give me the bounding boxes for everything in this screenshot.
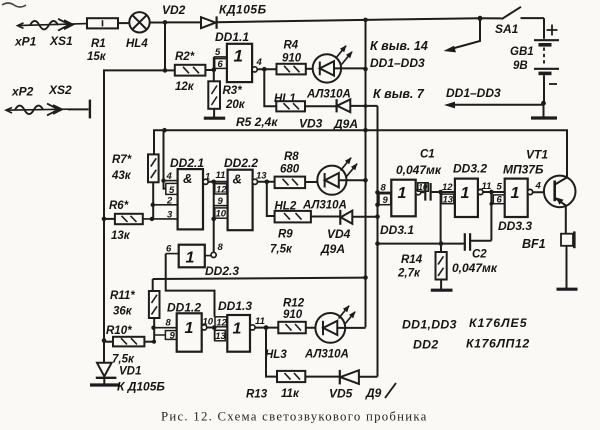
node xyxy=(212,68,217,73)
wire pins 4-5 xyxy=(164,130,166,188)
wire xyxy=(566,246,568,289)
svg-text:АЛ310А: АЛ310А xyxy=(304,349,349,361)
svg-text:HL3: HL3 xyxy=(265,349,287,361)
wire xyxy=(257,68,276,70)
svg-text:МП37Б: МП37Б xyxy=(503,163,544,177)
scan smudge top-left xyxy=(2,3,26,7)
node xyxy=(478,16,483,21)
svg-text:К176ЛП12: К176ЛП12 xyxy=(466,337,530,351)
svg-text:SA1: SA1 xyxy=(495,22,519,36)
svg-text:10: 10 xyxy=(216,209,227,220)
node xyxy=(102,217,107,222)
svg-text:HL4: HL4 xyxy=(126,38,148,50)
svg-text:1: 1 xyxy=(511,185,520,202)
pin 13 box DD3.2 xyxy=(442,194,454,205)
resistor R7 xyxy=(148,154,159,219)
svg-text:С1: С1 xyxy=(420,149,435,161)
arrowhead xyxy=(444,102,455,109)
node xyxy=(375,203,380,208)
svg-text:13: 13 xyxy=(215,331,226,342)
wire xyxy=(144,341,154,343)
svg-text:R4: R4 xyxy=(284,40,299,52)
wire +V line mid xyxy=(154,130,567,177)
gate DD3.2 xyxy=(455,179,483,217)
wire R13 branch xyxy=(266,328,277,377)
svg-text:9: 9 xyxy=(218,196,224,207)
svg-text:1: 1 xyxy=(186,250,195,267)
svg-text:VD3: VD3 xyxy=(299,117,323,131)
svg-text:DD1–DD3: DD1–DD3 xyxy=(446,86,501,100)
wire xyxy=(305,376,340,378)
svg-text:R14: R14 xyxy=(401,254,423,266)
wire +9V rail xyxy=(217,18,502,22)
ground BF1 xyxy=(557,288,578,291)
wire xyxy=(305,105,337,107)
wire xyxy=(305,181,325,183)
resistor R14 xyxy=(436,244,447,290)
pin 9 box DD1.2 xyxy=(154,331,180,342)
node A xyxy=(163,20,168,25)
svg-text:&: & xyxy=(183,171,192,186)
node xyxy=(265,180,270,185)
node R10 bus xyxy=(102,338,107,343)
svg-text:6: 6 xyxy=(166,244,172,255)
svg-text:DD1.3: DD1.3 xyxy=(218,299,252,313)
pin 6 box DD3.3 xyxy=(493,195,504,206)
svg-text:R12: R12 xyxy=(283,298,305,310)
svg-text:8: 8 xyxy=(218,242,224,253)
pin 13 box DD1.3 xyxy=(215,328,227,343)
svg-text:КД105Б: КД105Б xyxy=(219,3,267,17)
node xyxy=(264,325,269,330)
resistor R9 xyxy=(275,211,311,223)
wire DD2.2 input tie xyxy=(213,182,215,252)
svg-text:VD5: VD5 xyxy=(329,387,353,401)
svg-text:Д9А: Д9А xyxy=(333,117,358,131)
node xyxy=(163,68,168,73)
svg-text:DD3.1: DD3.1 xyxy=(380,223,414,237)
diode VD5 xyxy=(340,370,378,385)
resistor R10 xyxy=(113,337,144,347)
wire xyxy=(104,341,113,343)
wire emitter xyxy=(565,205,567,233)
svg-text:R6*: R6* xyxy=(109,200,129,212)
resistor R13 xyxy=(277,371,305,382)
switch SA1 xyxy=(502,7,545,19)
svg-text:10: 10 xyxy=(203,317,214,328)
svg-text:АЛ310А: АЛ310А xyxy=(302,200,347,212)
svg-text:DD2.3: DD2.3 xyxy=(205,264,239,278)
svg-text:DD1.2: DD1.2 xyxy=(167,301,201,315)
svg-text:BF1: BF1 xyxy=(522,237,546,251)
svg-text:680: 680 xyxy=(280,164,300,176)
svg-text:VT1: VT1 xyxy=(526,148,548,162)
svg-text:5: 5 xyxy=(215,47,221,58)
node xyxy=(489,190,494,195)
node xyxy=(212,325,217,330)
svg-text:XS2: XS2 xyxy=(48,83,72,97)
node xyxy=(211,180,216,185)
diode VD3 xyxy=(337,99,378,112)
pin 6 box xyxy=(215,59,227,70)
LED HL2 xyxy=(317,158,365,195)
svg-text:12: 12 xyxy=(216,318,227,329)
svg-text:9В: 9В xyxy=(513,60,528,72)
wire node A down xyxy=(164,22,166,70)
svg-text:1: 1 xyxy=(234,47,243,66)
svg-text:9: 9 xyxy=(170,331,176,342)
ground VD1 xyxy=(90,383,120,386)
node xyxy=(375,241,380,246)
wire xyxy=(205,69,213,71)
svg-text:11: 11 xyxy=(216,170,226,181)
svg-text:R3*: R3* xyxy=(223,85,243,97)
svg-text:АЛ310А: АЛ310А xyxy=(306,89,351,101)
svg-text:1: 1 xyxy=(398,185,407,202)
pin 10 box xyxy=(215,208,229,220)
node xyxy=(262,67,267,72)
gate DD3.3 xyxy=(505,179,533,217)
gate DD1.2 xyxy=(177,313,207,351)
pin 8 DD1.2 xyxy=(154,327,177,329)
buzzer BF1 xyxy=(561,231,574,248)
svg-text:3: 3 xyxy=(167,210,173,221)
svg-text:8: 8 xyxy=(166,318,172,329)
svg-text:GB1: GB1 xyxy=(510,46,534,58)
node xyxy=(363,128,368,133)
pin 3 xyxy=(143,218,178,220)
svg-text:10: 10 xyxy=(418,183,427,192)
svg-text:DD1.1: DD1.1 xyxy=(215,30,249,44)
svg-text:13: 13 xyxy=(443,195,454,206)
gate DD2.3 xyxy=(179,245,217,268)
wire pins 5-6 tie xyxy=(213,57,215,81)
svg-text:9: 9 xyxy=(383,195,389,206)
svg-text:910: 910 xyxy=(282,53,302,65)
node xyxy=(161,178,165,182)
pin 9 xyxy=(214,205,228,207)
svg-text:К176ЛЕ5: К176ЛЕ5 xyxy=(469,316,528,330)
svg-text:12: 12 xyxy=(442,182,453,193)
node xyxy=(364,104,368,108)
wire to pin 7 xyxy=(451,104,544,106)
svg-text:&: & xyxy=(233,172,242,187)
pin 6 xyxy=(166,253,179,255)
LED HL3 xyxy=(315,306,365,343)
wire bus B xyxy=(377,106,379,377)
svg-text:R5 2,4к: R5 2,4к xyxy=(236,115,278,129)
svg-text:13к: 13к xyxy=(111,230,131,242)
svg-text:XS1: XS1 xyxy=(49,34,73,48)
probe XP1/XS1 xyxy=(18,19,88,31)
svg-text:2: 2 xyxy=(166,196,173,207)
svg-text:11: 11 xyxy=(255,316,265,327)
resistor R2 xyxy=(175,65,206,76)
svg-text:43к: 43к xyxy=(111,170,132,182)
wire xyxy=(150,22,165,24)
diode VD1 xyxy=(96,341,117,385)
wire xyxy=(104,218,115,220)
wire xyxy=(165,69,175,71)
wire C2 tie xyxy=(490,192,492,241)
wire xyxy=(255,327,278,329)
svg-text:К выв. 14: К выв. 14 xyxy=(370,39,428,53)
wire feedback xyxy=(166,254,215,317)
svg-text:R1: R1 xyxy=(91,38,106,50)
svg-text:хР2: хР2 xyxy=(11,85,34,99)
svg-text:910: 910 xyxy=(283,309,303,321)
wire xyxy=(118,22,129,24)
svg-text:R9: R9 xyxy=(278,229,293,241)
svg-text:DD2.2: DD2.2 xyxy=(224,156,258,170)
svg-text:4: 4 xyxy=(256,57,263,68)
svg-text:15к: 15к xyxy=(87,51,107,63)
pin 2 xyxy=(153,204,178,206)
ground R14 xyxy=(431,289,453,292)
svg-text:R11*: R11* xyxy=(110,290,135,302)
gate DD1.1 xyxy=(227,44,257,82)
wire down to R5 xyxy=(264,69,276,106)
resistor R11 xyxy=(149,291,160,342)
svg-text:DD1,DD3: DD1,DD3 xyxy=(402,318,457,332)
gate DD1.3 xyxy=(227,315,255,352)
svg-text:DD1–DD3: DD1–DD3 xyxy=(370,56,425,70)
wire pins 12-13 tie xyxy=(440,192,442,244)
svg-text:DD3.2: DD3.2 xyxy=(453,162,487,176)
capacitor C2 xyxy=(465,233,492,251)
gate DD2.1 xyxy=(178,169,209,229)
svg-text:R2*: R2* xyxy=(175,51,195,63)
svg-text:12: 12 xyxy=(216,185,227,196)
node xyxy=(363,67,368,72)
diode VD4 xyxy=(340,210,377,225)
wire xyxy=(152,279,154,291)
wire bias line xyxy=(153,278,366,279)
wire xyxy=(306,68,320,70)
svg-text:6: 6 xyxy=(497,195,503,206)
svg-text:VD4: VD4 xyxy=(327,227,351,241)
wire xyxy=(311,216,340,218)
svg-text:R7*: R7* xyxy=(112,154,132,166)
node xyxy=(439,241,444,246)
wire xyxy=(165,21,201,23)
pin 10 box label xyxy=(418,183,428,192)
svg-text:5: 5 xyxy=(169,185,175,196)
transistor VT1 xyxy=(544,176,576,208)
svg-text:4: 4 xyxy=(166,171,173,182)
node xyxy=(152,340,156,344)
wire xyxy=(258,181,275,183)
wire down to R9 xyxy=(267,182,275,216)
svg-text:11к: 11к xyxy=(281,388,300,400)
node xyxy=(490,202,494,206)
pin 4 xyxy=(164,180,178,182)
svg-text:Рис. 12. Схема светозвукового: Рис. 12. Схема светозвукового пробника xyxy=(161,410,428,424)
svg-text:1: 1 xyxy=(461,185,470,202)
pin 5 xyxy=(214,56,227,58)
resistor R5 xyxy=(276,101,305,111)
node xyxy=(363,18,368,23)
svg-text:DD2: DD2 xyxy=(413,338,439,352)
svg-text:R10*: R10* xyxy=(106,325,132,337)
svg-text:4: 4 xyxy=(535,181,542,192)
wire xyxy=(421,191,425,193)
svg-text:DD3.3: DD3.3 xyxy=(498,219,532,233)
wire xyxy=(483,191,505,193)
capacitor C1 xyxy=(425,183,455,201)
svg-text:12к: 12к xyxy=(175,81,195,93)
node xyxy=(375,214,380,219)
node xyxy=(363,178,368,183)
node xyxy=(150,217,154,221)
svg-text:DD2.1: DD2.1 xyxy=(170,156,204,170)
node xyxy=(162,128,167,133)
svg-text:К выв. 7: К выв. 7 xyxy=(373,87,425,101)
svg-text:2,7к: 2,7к xyxy=(397,268,421,280)
node xyxy=(438,190,443,195)
resistor R1 xyxy=(87,18,118,28)
svg-text:1: 1 xyxy=(185,320,194,337)
svg-text:R8: R8 xyxy=(284,151,299,163)
node battery minus xyxy=(541,101,546,106)
svg-text:Д9: Д9 xyxy=(365,386,382,400)
svg-text:20к: 20к xyxy=(225,99,246,111)
pin 5 box xyxy=(166,183,178,195)
svg-text:8: 8 xyxy=(381,183,387,194)
diode VD2 xyxy=(201,16,217,28)
LED HL1 xyxy=(313,46,366,83)
pin 12 box xyxy=(215,184,227,196)
wire xyxy=(207,327,215,329)
wire xyxy=(208,181,227,183)
svg-text:0,047мк: 0,047мк xyxy=(452,261,498,275)
svg-text:VD2: VD2 xyxy=(162,3,186,17)
svg-text:С2: С2 xyxy=(472,249,487,261)
svg-text:7,5к: 7,5к xyxy=(270,244,293,256)
gate DD2.2 xyxy=(228,170,258,231)
pin 9 box DD3.1 xyxy=(379,194,391,207)
wire base xyxy=(533,191,555,193)
wire xyxy=(306,327,323,329)
svg-text:0,047мк: 0,047мк xyxy=(396,163,442,177)
svg-text:К Д105Б: К Д105Б xyxy=(117,380,165,394)
node xyxy=(151,326,155,330)
node xyxy=(363,275,368,280)
ground R3 xyxy=(204,117,225,120)
svg-text:5: 5 xyxy=(497,182,503,193)
resistor R12 xyxy=(278,322,306,334)
battery ground xyxy=(531,103,557,118)
pin 12 box DD1.3 xyxy=(215,317,227,329)
svg-text:1: 1 xyxy=(233,321,242,338)
wire bus A xyxy=(365,20,367,328)
probe XP2/XS2 xyxy=(6,100,90,119)
pin 8 DD3.1 xyxy=(378,191,392,193)
resistor R4 xyxy=(277,64,306,75)
arrow to vyv14 xyxy=(444,18,481,52)
resistor R6 xyxy=(115,214,143,224)
wire left bus xyxy=(104,70,165,340)
svg-text:36к: 36к xyxy=(113,306,133,318)
wire C2 row xyxy=(378,243,464,245)
lamp HL4 xyxy=(129,12,149,32)
battery GB1 xyxy=(534,18,559,103)
svg-text:R13: R13 xyxy=(246,389,268,401)
resistor R8 xyxy=(275,177,306,189)
node xyxy=(211,217,216,222)
svg-text:Д9А: Д9А xyxy=(320,242,345,256)
svg-text:VD1: VD1 xyxy=(119,366,141,378)
svg-text:6: 6 xyxy=(218,59,224,70)
svg-text:7,5к: 7,5к xyxy=(112,354,135,366)
gate DD3.1 xyxy=(391,180,421,217)
svg-text:хР1: хР1 xyxy=(14,35,37,49)
resistor R3 xyxy=(208,81,220,117)
